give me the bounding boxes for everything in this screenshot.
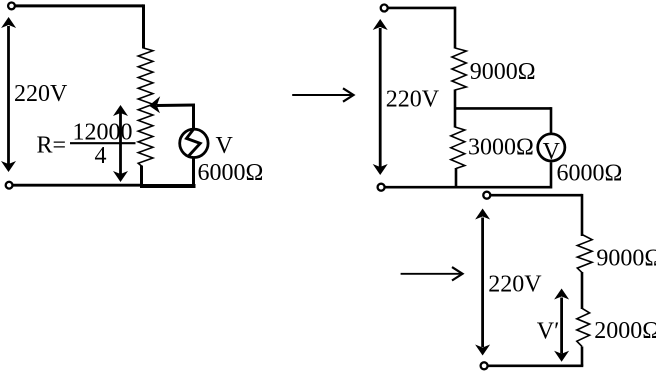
- wire (down to 9000 resistor): [454, 7, 457, 49]
- wire (right vertical down to resistor): [142, 4, 145, 48]
- wire (wiper horizontal): [157, 104, 195, 108]
- voltmeter V (galvanometer circle): [180, 129, 208, 157]
- svg-text:12000: 12000: [73, 120, 133, 146]
- resistor 9000Ω: [452, 48, 466, 90]
- wire (bottom rail): [488, 364, 583, 367]
- wire (2000 bottom lead): [581, 347, 584, 366]
- resistor 2000Ω: [577, 308, 590, 346]
- svg-text:3000Ω: 3000Ω: [468, 135, 534, 161]
- terminal (bottom left): [6, 182, 13, 189]
- wire (voltmeter bottom lead): [192, 159, 195, 187]
- wire (below resistor to bottom rail): [140, 166, 143, 187]
- source arrow 220V (double headed): [379, 28, 382, 167]
- svg-text:6000Ω: 6000Ω: [557, 161, 623, 187]
- wiper arrowhead: [149, 96, 160, 113]
- svg-text:4: 4: [95, 143, 107, 169]
- voltmeter V2: [538, 134, 565, 161]
- voltmeter inner zigzag: [187, 129, 201, 157]
- wire (junction to voltmeter branch): [455, 107, 551, 110]
- svg-text:V′: V′: [537, 319, 560, 345]
- svg-text:6000Ω: 6000Ω: [198, 160, 264, 186]
- svg-text:9000Ω: 9000Ω: [470, 59, 536, 85]
- svg-text:R=: R=: [37, 133, 67, 159]
- terminal (top): [381, 5, 388, 12]
- wire (top): [388, 7, 455, 10]
- measure arrow V' (double headed): [560, 298, 563, 354]
- resistor R (potentiometer body): [138, 48, 153, 166]
- resistor 3000Ω: [451, 127, 465, 169]
- terminal (bottom): [378, 184, 385, 191]
- arrow (implies): [292, 94, 352, 96]
- wire (voltmeter bottom lead): [550, 162, 553, 188]
- fraction bar: [70, 142, 136, 144]
- measure arrow (vertical double headed across fraction): [119, 113, 122, 174]
- wire (bottom rail): [13, 184, 142, 187]
- arrow (implies): [401, 273, 462, 275]
- svg-text:2000Ω: 2000Ω: [594, 318, 656, 344]
- resistor 9000Ω (bottom circuit): [577, 235, 592, 273]
- wire (bottom rail bold segment): [140, 184, 196, 188]
- wire (wiper: voltmeter top lead up): [192, 105, 195, 130]
- wire (between resistors, through junction): [454, 90, 457, 128]
- wire (down to 9000 resistor): [581, 194, 584, 236]
- wire (top, terminal to corner): [16, 4, 144, 7]
- svg-text:220V: 220V: [14, 81, 68, 107]
- source arrow 220V (double headed): [481, 218, 484, 348]
- terminal (top left): [8, 3, 15, 10]
- svg-text:9000Ω: 9000Ω: [596, 245, 656, 271]
- terminal (top): [483, 192, 490, 199]
- wire (between resistors): [581, 272, 584, 309]
- svg-text:V: V: [216, 133, 234, 159]
- svg-text:220V: 220V: [386, 86, 440, 112]
- wire (3000 bottom lead): [455, 168, 458, 189]
- source arrow 220V (left, double headed): [7, 26, 10, 164]
- svg-text:220V: 220V: [488, 272, 542, 298]
- wire (bottom rail): [385, 186, 551, 189]
- terminal (bottom): [481, 362, 488, 369]
- wire (top): [491, 194, 582, 197]
- wire (voltmeter branch down): [550, 107, 553, 135]
